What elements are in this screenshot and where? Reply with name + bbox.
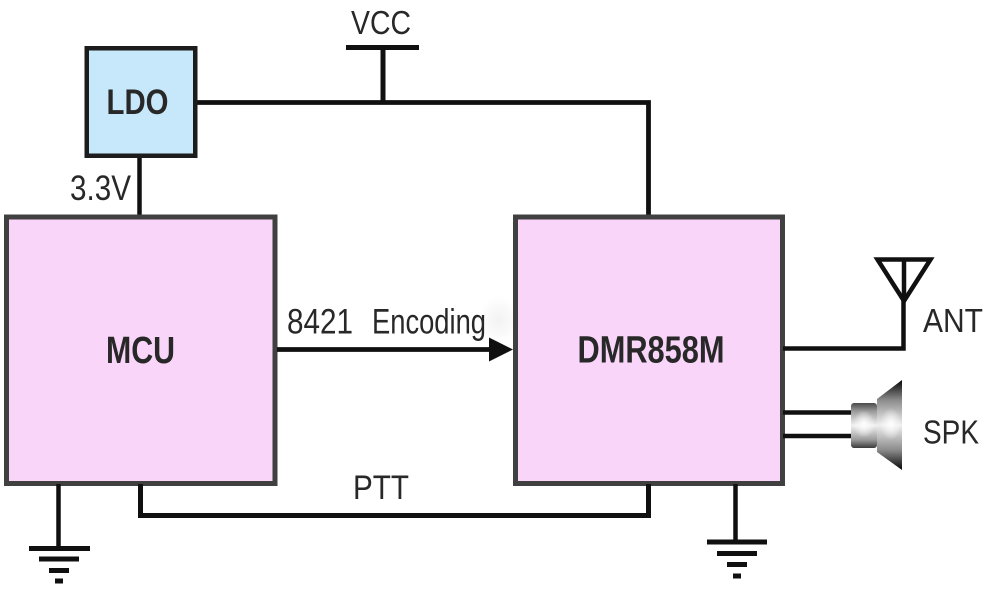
wire MCU to ground xyxy=(56,484,61,549)
svg-text:LDO: LDO xyxy=(107,83,169,122)
wire LDO to MCU 3.3V xyxy=(137,158,142,216)
smudge artifact xyxy=(477,296,521,344)
antenna ANT symbol xyxy=(878,260,931,302)
power rail VCC stem xyxy=(381,50,386,104)
wire DMR858M speaker out + xyxy=(783,410,852,415)
speaker SPK symbol xyxy=(851,380,902,470)
svg-text:3.3V: 3.3V xyxy=(70,169,132,208)
svg-text:MCU: MCU xyxy=(106,330,175,372)
svg-text:8421: 8421 xyxy=(287,303,353,342)
regulator LDO box xyxy=(87,48,196,156)
svg-text:VCC: VCC xyxy=(351,4,411,41)
block DMR858M box xyxy=(516,217,783,484)
wire DMR858M speaker out - xyxy=(783,434,852,439)
svg-text:PTT: PTT xyxy=(353,469,409,507)
ground GND2 (DMR858M) xyxy=(707,542,767,576)
wire signal arrow MCU to DMR858M xyxy=(277,347,492,352)
svg-text:Encoding: Encoding xyxy=(372,303,486,342)
arrowhead xyxy=(489,338,513,362)
svg-text:SPK: SPK xyxy=(923,414,979,451)
power rail VCC bar xyxy=(346,45,419,50)
ground GND1 (MCU) xyxy=(29,549,90,582)
wire PTT MCU to DMR858M xyxy=(141,484,649,516)
wire DMR858M ANT pin to antenna xyxy=(783,300,904,349)
wire LDO output to VCC rail to DMR858M supply pin xyxy=(196,103,649,217)
block MCU box xyxy=(7,217,276,484)
svg-text:DMR858M: DMR858M xyxy=(578,330,725,372)
wire DMR858M to ground xyxy=(733,484,738,542)
svg-text:ANT: ANT xyxy=(923,302,983,339)
